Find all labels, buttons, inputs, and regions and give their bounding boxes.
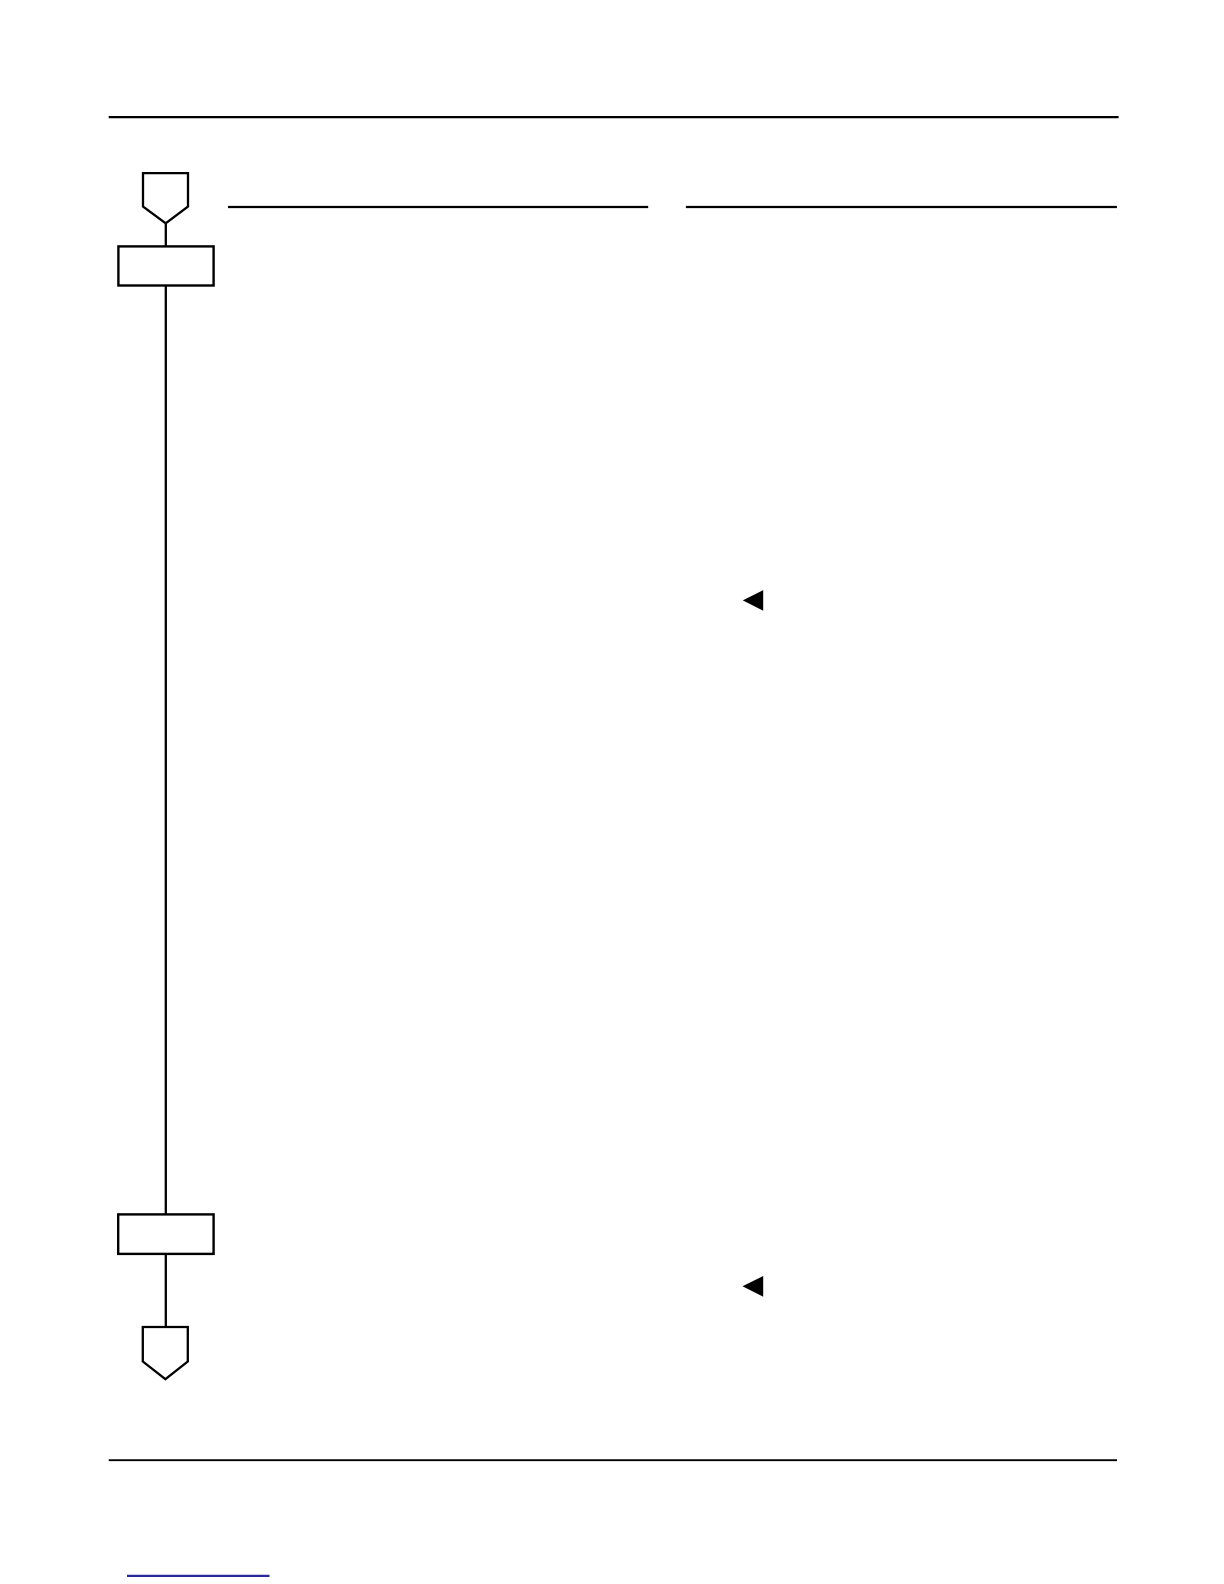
- wire: process box 2 to exit pentagon: [165, 1254, 167, 1327]
- footnote rule (blue): [127, 1575, 270, 1577]
- off-page connector pentagon (entry): [143, 173, 188, 223]
- footer rule: [109, 1459, 1117, 1461]
- off-page connector pentagon (exit): [143, 1327, 188, 1379]
- right column header rule: [686, 206, 1117, 208]
- wire: pentagon apex to process box 1: [165, 223, 167, 246]
- process box 1: [118, 246, 213, 285]
- change marker triangle 1: [743, 590, 763, 611]
- wire: process box 1 to process box 2: [165, 286, 167, 1215]
- change marker triangle 2: [743, 1276, 764, 1297]
- process box 2: [118, 1214, 213, 1254]
- top header rule: [109, 116, 1119, 118]
- left column header rule: [228, 206, 648, 208]
